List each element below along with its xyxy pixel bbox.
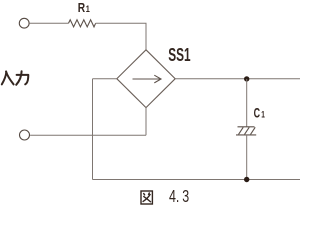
wire bottom rail <box>93 179 301 181</box>
label 図 (figure) <box>141 191 152 204</box>
wire diamond left to left rail <box>93 78 117 80</box>
svg-text:1: 1 <box>86 4 90 14</box>
wire top rail <box>175 78 300 80</box>
arrow inside SS1 <box>133 75 162 83</box>
terminal top-left <box>19 18 29 28</box>
wire top left <box>29 22 68 24</box>
label 入力 (input) <box>2 71 29 85</box>
label R1 <box>78 2 90 15</box>
svg-text:SS1: SS1 <box>168 45 191 65</box>
svg-text:R: R <box>78 2 86 15</box>
svg-text:4.: 4. <box>169 187 179 207</box>
resistor R1 <box>69 20 96 27</box>
node junction bottom <box>244 177 249 182</box>
wire capacitor bottom lead <box>246 135 248 180</box>
wire input bottom <box>30 134 146 136</box>
svg-text:3: 3 <box>182 187 189 207</box>
current source SS1 diamond <box>117 50 175 108</box>
capacitor C1 <box>236 127 256 135</box>
wire capacitor top lead <box>246 79 248 127</box>
label C1 <box>254 107 266 121</box>
wire left vertical <box>92 79 94 180</box>
svg-text:1: 1 <box>261 110 265 120</box>
node junction top <box>244 76 249 81</box>
terminal bottom-left <box>20 130 30 140</box>
svg-text:C: C <box>254 107 261 121</box>
label 4.3 <box>169 187 189 207</box>
wire resistor to corner, down to diamond top <box>96 23 146 50</box>
wire up to diamond bottom <box>145 108 147 136</box>
